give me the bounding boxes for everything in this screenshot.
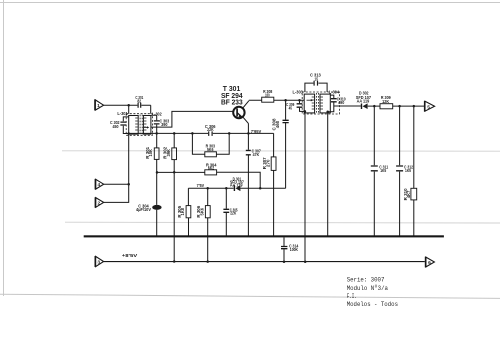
svg-text:AA 119: AA 119 — [357, 99, 370, 105]
svg-text:100: 100 — [265, 92, 270, 98]
svg-text:7'95V: 7'95V — [251, 129, 262, 135]
svg-text:460: 460 — [275, 120, 281, 128]
svg-text:10K: 10K — [148, 149, 154, 157]
svg-text:22K: 22K — [230, 211, 236, 217]
svg-text:L-302: L-302 — [152, 112, 162, 118]
svg-text:22K: 22K — [207, 127, 214, 133]
svg-text:3: 3 — [97, 260, 100, 266]
svg-text:F.I.: F.I. — [347, 293, 357, 301]
svg-text:5K6: 5K6 — [200, 208, 206, 216]
svg-text:BF 233: BF 233 — [221, 97, 243, 106]
svg-text:L-301: L-301 — [117, 111, 128, 117]
svg-text:47K: 47K — [253, 152, 260, 158]
svg-text:L-304: L-304 — [329, 90, 339, 96]
svg-text:5K6: 5K6 — [207, 147, 214, 153]
svg-text:AA 119: AA 119 — [230, 183, 243, 188]
svg-text:82: 82 — [137, 99, 141, 105]
svg-text:7'5V: 7'5V — [197, 183, 205, 189]
svg-text:Serie: 3007: Serie: 3007 — [347, 277, 385, 285]
svg-text:1K5: 1K5 — [380, 168, 386, 174]
svg-text:1: 1 — [97, 103, 100, 109]
svg-text:2: 2 — [97, 200, 100, 206]
svg-text:4K7: 4K7 — [406, 190, 412, 198]
svg-text:15: 15 — [315, 77, 319, 83]
svg-text:6: 6 — [428, 260, 431, 266]
svg-text:1K5: 1K5 — [405, 168, 411, 174]
svg-text:45: 45 — [289, 105, 293, 111]
svg-text:Modelos - Todos: Modelos - Todos — [347, 301, 398, 309]
svg-text:490: 490 — [338, 100, 344, 106]
svg-text:4: 4 — [97, 182, 100, 188]
svg-text:450: 450 — [113, 124, 119, 130]
svg-text:12K: 12K — [382, 99, 389, 105]
svg-text:1K8: 1K8 — [180, 208, 186, 216]
svg-text:390: 390 — [161, 122, 168, 128]
svg-text:6K2: 6K2 — [208, 166, 215, 172]
svg-text:5: 5 — [427, 104, 430, 110]
svg-text:270: 270 — [265, 159, 271, 167]
svg-text:4µF/10V: 4µF/10V — [136, 207, 152, 213]
svg-text:L-303: L-303 — [293, 89, 304, 95]
svg-text:+8'5V: +8'5V — [122, 253, 138, 259]
svg-text:100K: 100K — [290, 247, 299, 253]
svg-text:Modulo Nº3/a: Modulo Nº3/a — [347, 285, 388, 293]
svg-text:39K: 39K — [166, 149, 172, 157]
